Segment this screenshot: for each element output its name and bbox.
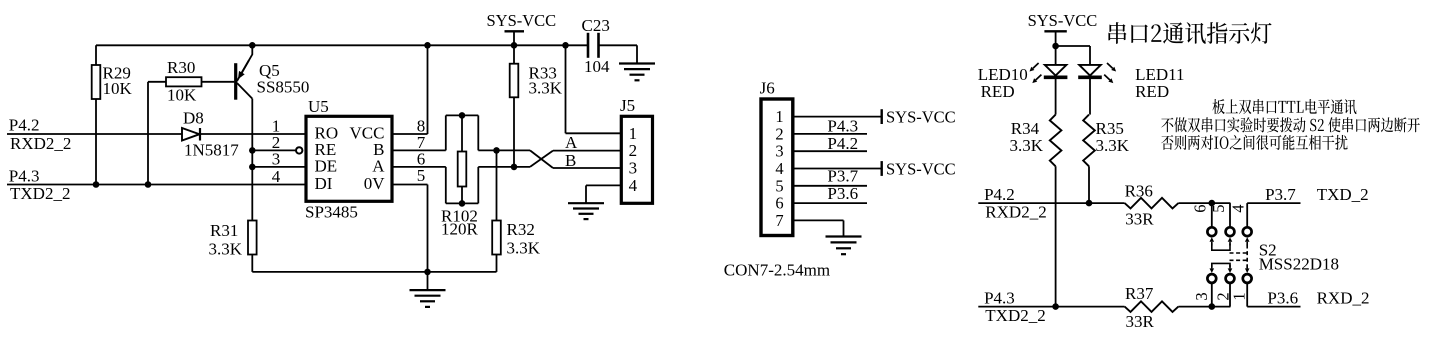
wire: SYS-VCC top rail bbox=[96, 44, 637, 46]
svg-text:RED: RED bbox=[1135, 82, 1169, 101]
J6 value label CON7-2.54mm bbox=[724, 261, 830, 280]
svg-text:P3.7: P3.7 bbox=[1265, 185, 1296, 204]
svg-text:2: 2 bbox=[629, 141, 638, 160]
op-amp U5 SP3485 body bbox=[305, 97, 392, 222]
wire: to LED11 anode bbox=[1056, 46, 1090, 65]
svg-text:TXD_2: TXD_2 bbox=[1317, 185, 1369, 204]
svg-text:4: 4 bbox=[272, 167, 281, 186]
svg-text:SP3485: SP3485 bbox=[305, 203, 358, 222]
svg-text:5: 5 bbox=[775, 176, 783, 195]
svg-text:SS8550: SS8550 bbox=[257, 78, 310, 97]
switch S2 bottom pole stubs bbox=[1212, 283, 1247, 307]
junction on rail at C23/J5 pin1 branch bbox=[562, 42, 569, 49]
junction on rail at U5 VCC branch bbox=[424, 42, 431, 49]
svg-text:J5: J5 bbox=[620, 96, 635, 115]
switch S2 top pole stubs bbox=[1212, 203, 1247, 227]
junction on rail at SYS-VCC/R33 bbox=[511, 42, 518, 49]
svg-text:3: 3 bbox=[1192, 292, 1211, 300]
resistor R30 bbox=[148, 58, 234, 185]
svg-text:5: 5 bbox=[1209, 204, 1228, 212]
junction B/R32 bbox=[493, 147, 500, 154]
svg-text:0V: 0V bbox=[364, 174, 386, 193]
junction on rail at Q5 emitter bbox=[249, 42, 256, 49]
svg-text:RXD2_2: RXD2_2 bbox=[10, 134, 71, 153]
wire: A net right of R102 bbox=[478, 166, 530, 168]
wire: J6 pin3 net P4.2 bbox=[793, 134, 867, 153]
svg-text:3.3K: 3.3K bbox=[1096, 136, 1130, 155]
resistor R35 bbox=[1083, 115, 1130, 204]
svg-text:SYS-VCC: SYS-VCC bbox=[886, 107, 956, 126]
wire: S2 pin4 to P3.7 / TXD_2 bbox=[1247, 185, 1368, 204]
wire: P4.2/RXD2_2 row to S2 bbox=[978, 185, 1230, 222]
svg-text:R37: R37 bbox=[1125, 284, 1154, 303]
resistor R29 bbox=[92, 45, 133, 184]
node B label bbox=[565, 151, 576, 170]
wire: B net right of R102 bbox=[478, 149, 530, 151]
wire: Q5 collector to RE/DE and R31 bbox=[251, 99, 253, 221]
svg-text:SYS-VCC: SYS-VCC bbox=[886, 159, 956, 178]
svg-text:R31: R31 bbox=[210, 221, 238, 240]
note text line 2 bbox=[1161, 117, 1420, 132]
svg-text:U5: U5 bbox=[308, 97, 329, 116]
S2 top contacts bbox=[1207, 227, 1251, 236]
transistor Q5 bbox=[236, 45, 310, 99]
power symbol SYS-VCC (J6 pin4) bbox=[882, 159, 956, 178]
S2 pin number 6 bbox=[1190, 204, 1209, 212]
svg-text:SYS-VCC: SYS-VCC bbox=[487, 11, 557, 30]
svg-text:C23: C23 bbox=[582, 16, 610, 35]
svg-text:P3.6: P3.6 bbox=[1267, 288, 1298, 307]
svg-text:B: B bbox=[565, 151, 576, 170]
svg-text:TXD2_2: TXD2_2 bbox=[10, 184, 70, 203]
svg-text:RXD_2: RXD_2 bbox=[1317, 288, 1370, 307]
resistor R33 bbox=[510, 45, 563, 167]
J6 pin numbers bbox=[775, 107, 783, 230]
junction R36 wire / S2 pin6 bbox=[1209, 200, 1216, 207]
wire: J6 pin6 net P3.6 bbox=[793, 184, 867, 203]
svg-text:DE: DE bbox=[315, 157, 338, 176]
S2 labels bbox=[1259, 241, 1339, 274]
svg-text:R30: R30 bbox=[167, 58, 195, 77]
S2 bottom contacts bbox=[1207, 274, 1251, 283]
wire: U5 pin8 VCC to rail bbox=[392, 45, 428, 134]
S2 pin number 1 bbox=[1229, 292, 1248, 300]
svg-text:RED: RED bbox=[981, 82, 1015, 101]
wire: J5 pin4 to ground bbox=[586, 185, 621, 203]
ground symbol (bottom bus) bbox=[410, 272, 446, 307]
wire: U5 pin3 DE stub bbox=[249, 164, 306, 171]
svg-text:CON7-2.54mm: CON7-2.54mm bbox=[724, 261, 830, 280]
svg-text:P3.7: P3.7 bbox=[827, 167, 858, 186]
svg-text:SYS-VCC: SYS-VCC bbox=[1028, 11, 1098, 30]
svg-text:P3.6: P3.6 bbox=[827, 184, 858, 203]
svg-text:RXD2_2: RXD2_2 bbox=[985, 202, 1046, 221]
svg-text:A: A bbox=[372, 157, 385, 176]
svg-text:P4.2: P4.2 bbox=[9, 116, 40, 135]
diode D8 bbox=[182, 109, 239, 160]
svg-text:MSS22D18: MSS22D18 bbox=[1259, 255, 1339, 274]
wire: U5 pin6 A bbox=[392, 166, 446, 168]
svg-text:33R: 33R bbox=[1126, 312, 1155, 331]
svg-text:R36: R36 bbox=[1125, 182, 1153, 201]
svg-text:TXD2_2: TXD2_2 bbox=[985, 306, 1045, 325]
wire: J6 pin5 net P3.7 bbox=[793, 167, 867, 186]
svg-text:P4.2: P4.2 bbox=[827, 134, 858, 153]
node A label bbox=[565, 133, 578, 152]
svg-text:3: 3 bbox=[629, 159, 638, 178]
wire: U5 pin7 B bbox=[392, 149, 446, 151]
wire: P4.3 / TXD2_2 net to U5 DI bbox=[7, 167, 306, 204]
S2 top moving contact bbox=[1210, 237, 1250, 250]
S2 pin number 2 bbox=[1214, 292, 1233, 300]
resistor R37 bbox=[1125, 284, 1179, 331]
svg-text:2: 2 bbox=[775, 124, 783, 143]
wire: U5 pin2 RE stub with bubble bbox=[249, 147, 302, 154]
junction R29/P4.3 bbox=[93, 181, 100, 188]
S2 coupling dashed links bbox=[1230, 245, 1248, 269]
note text line 1 bbox=[1212, 99, 1356, 114]
power symbol SYS-VCC (J6 pin1) bbox=[882, 107, 956, 126]
ground symbol (J6) bbox=[826, 237, 862, 255]
svg-text:10K: 10K bbox=[103, 79, 133, 98]
svg-text:P4.3: P4.3 bbox=[9, 167, 40, 186]
svg-text:4: 4 bbox=[775, 159, 783, 178]
connector J6 body bbox=[760, 79, 793, 236]
svg-text:P4.2: P4.2 bbox=[984, 185, 1015, 204]
svg-text:1: 1 bbox=[775, 107, 783, 126]
LED LED11 bbox=[1078, 63, 1184, 115]
connector J5 body bbox=[620, 96, 653, 203]
resistor R31 bbox=[209, 221, 257, 272]
svg-text:P4.3: P4.3 bbox=[827, 117, 858, 136]
svg-text:DI: DI bbox=[315, 174, 333, 193]
U5 pin numbers left bbox=[272, 117, 281, 187]
junction R35/RXD2_2 bbox=[1086, 200, 1093, 207]
junction ground bus bbox=[424, 269, 431, 276]
resistor R102 termination network bbox=[441, 112, 479, 238]
svg-text:3: 3 bbox=[272, 149, 281, 168]
svg-text:5: 5 bbox=[417, 166, 426, 185]
svg-text:3.3K: 3.3K bbox=[209, 240, 243, 259]
wire: J6 pin4 to SYS-VCC bbox=[793, 168, 882, 170]
capacitor C23 bbox=[582, 16, 611, 76]
junction A/R33 bbox=[511, 164, 518, 171]
svg-text:A: A bbox=[565, 133, 578, 152]
U5 pin numbers right bbox=[417, 117, 426, 186]
svg-text:4: 4 bbox=[1228, 204, 1247, 212]
U5 pin names bbox=[315, 124, 386, 194]
wire: J6 pin1 to SYS-VCC bbox=[793, 116, 882, 118]
wire: P4.3/TXD2_2 row to S2 bbox=[978, 288, 1230, 325]
resistor R32 bbox=[492, 150, 541, 272]
svg-text:1N5817: 1N5817 bbox=[184, 141, 239, 160]
svg-text:1: 1 bbox=[629, 124, 638, 143]
wire: S2 pin1 to P3.6 / RXD_2 bbox=[1247, 288, 1369, 307]
ground symbol (C23) bbox=[619, 45, 655, 80]
svg-text:1: 1 bbox=[1229, 292, 1248, 300]
S2 bottom moving contact bbox=[1210, 263, 1250, 273]
S2 pin number 5 bbox=[1209, 204, 1228, 212]
svg-text:3.3K: 3.3K bbox=[529, 78, 563, 97]
J5 pin numbers bbox=[629, 124, 638, 195]
svg-text:R32: R32 bbox=[507, 220, 535, 239]
svg-text:D8: D8 bbox=[183, 109, 204, 128]
resistor R34 bbox=[1010, 115, 1062, 307]
svg-text:33R: 33R bbox=[1125, 209, 1154, 228]
LED LED10 bbox=[978, 46, 1068, 115]
svg-text:104: 104 bbox=[584, 57, 610, 76]
wire: U5 pin5 0V to ground bus bbox=[392, 185, 428, 272]
power symbol SYS-VCC (LED branch) bbox=[1028, 11, 1098, 46]
wire: C23 junction down to J5 pin1 bbox=[566, 45, 622, 133]
svg-text:7: 7 bbox=[775, 211, 783, 230]
power symbol SYS-VCC (left) bbox=[487, 11, 557, 46]
resistor R36 bbox=[1125, 182, 1179, 229]
wire: A/B crossover to J5 bbox=[530, 150, 621, 168]
junction R37 wire / S2 pin3 bbox=[1209, 303, 1216, 310]
svg-text:120R: 120R bbox=[441, 220, 479, 239]
wire: ground bus at bottom bbox=[252, 271, 496, 273]
svg-text:10K: 10K bbox=[167, 86, 197, 105]
junction SYS-VCC/LEDs bbox=[1052, 43, 1059, 50]
note text line 3 bbox=[1161, 135, 1347, 150]
svg-text:P4.3: P4.3 bbox=[984, 288, 1015, 307]
ground symbol (J5) bbox=[568, 203, 604, 219]
wire: J6 pin7 to ground bbox=[793, 220, 844, 236]
svg-text:3.3K: 3.3K bbox=[507, 239, 541, 258]
title text bbox=[1108, 22, 1271, 44]
wire: P4.2 / RXD2_2 net to U5 RO bbox=[7, 116, 306, 153]
svg-text:3: 3 bbox=[775, 142, 783, 161]
junction R34/TXD2_2 bbox=[1052, 303, 1059, 310]
svg-text:J6: J6 bbox=[760, 79, 775, 98]
S2 pin number 3 bbox=[1192, 292, 1211, 300]
svg-text:3.3K: 3.3K bbox=[1010, 136, 1044, 155]
svg-text:6: 6 bbox=[775, 194, 783, 213]
svg-text:4: 4 bbox=[629, 176, 638, 195]
svg-text:6: 6 bbox=[1190, 204, 1209, 212]
wire: J6 pin2 net P4.3 bbox=[793, 117, 867, 136]
S2 pin number 4 bbox=[1228, 204, 1247, 212]
junction R30/P4.3 bbox=[145, 181, 152, 188]
